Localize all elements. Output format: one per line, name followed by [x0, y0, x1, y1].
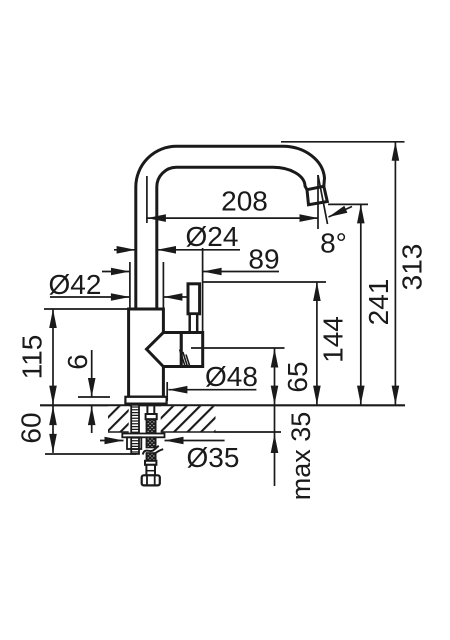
dim lines diameter 24: [114, 249, 136, 251]
144 arrows: [313, 282, 321, 301]
lever cap (cartridge cover): [181, 333, 202, 367]
dim line 241: [360, 204, 362, 404]
dim line 144: [316, 282, 318, 405]
valve boss pentagon: [147, 333, 182, 367]
svg-text:60: 60: [16, 412, 47, 443]
svg-text:208: 208: [221, 186, 268, 217]
lever tail wedge: [180, 350, 190, 367]
hose collar: [145, 461, 156, 465]
svg-text:Ø42: Ø42: [49, 269, 102, 300]
spout outer edge (pipe left side, top bend, down bend to tip): [136, 146, 325, 309]
241 arrows: [357, 204, 365, 223]
counter hatch right block: [161, 406, 216, 432]
counter hatch left block: [108, 406, 129, 432]
60 arrows: [49, 406, 57, 425]
spout inner edge: [157, 167, 307, 309]
svg-text:max 35: max 35: [286, 412, 316, 501]
dim line 60: [52, 406, 54, 453]
ext line body left (for 42/89): [129, 262, 131, 308]
ext line lever top (for 144): [202, 281, 326, 283]
dim line 208: [147, 217, 319, 219]
115 arrows: [49, 309, 57, 328]
threaded stud: [131, 405, 139, 454]
208 arrows: [147, 214, 166, 222]
8deg vertical reference line: [317, 175, 319, 229]
8deg arrow: [327, 206, 347, 221]
dia42 arrows: [111, 293, 130, 301]
leader handle center (for 65): [191, 347, 285, 349]
ext line plate top (for 6): [78, 396, 110, 398]
dim line 115: [52, 309, 54, 405]
dim lines 89: [102, 271, 130, 273]
svg-text:Ø35: Ø35: [187, 442, 240, 473]
svg-text:65: 65: [282, 361, 313, 392]
svg-text:6: 6: [62, 354, 93, 370]
ext line body right (for 42): [162, 262, 164, 308]
svg-text:Ø48: Ø48: [205, 361, 258, 392]
hose break squiggle: [143, 446, 163, 458]
dim line 6 upper: [91, 350, 93, 397]
faucet body cylinder: [129, 309, 164, 397]
lever neck: [190, 314, 198, 333]
svg-text:Ø24: Ø24: [186, 221, 239, 252]
dim line diameter 48: [168, 389, 256, 391]
dimension labels: [16, 186, 428, 501]
65 arrows: [271, 349, 279, 368]
lever handle stick: [188, 284, 200, 314]
hose braided section lower: [146, 453, 155, 461]
dia48 arrow: [168, 386, 187, 394]
8deg leader line: [329, 207, 353, 218]
ext line stud bottom (for 60): [45, 453, 136, 455]
svg-text:144: 144: [318, 316, 349, 363]
hose ferrule: [146, 414, 157, 419]
hose neck: [146, 465, 155, 476]
dia35 arrows: [105, 437, 124, 445]
svg-text:8°: 8°: [320, 228, 347, 259]
ext line hatch bottom (for max35): [215, 431, 282, 433]
ext line handle right (for 89): [202, 248, 204, 332]
hose upper tube: [147, 405, 154, 414]
6 arrows: [88, 378, 96, 397]
hex nut facet lines: [147, 475, 155, 485]
dim line 313: [394, 142, 396, 405]
ext line spout outlet (for 241): [328, 203, 368, 205]
89 arrows: [111, 268, 130, 276]
ext line body top (for 115): [44, 308, 128, 310]
dim line 6 lower: [91, 406, 93, 433]
svg-text:241: 241: [363, 279, 394, 326]
svg-text:313: 313: [397, 244, 428, 291]
mounting washer: [122, 434, 164, 438]
base plate: [125, 397, 166, 404]
max35 arrow: [271, 434, 279, 453]
8deg tilted axis line: [318, 175, 328, 224]
dia24 arrows: [117, 246, 136, 254]
hose hex nut: [142, 475, 160, 485]
counter top line: [40, 404, 405, 406]
aerator tip (tilted outlet): [307, 186, 327, 204]
ext line spout top (for 313): [281, 141, 405, 143]
dim line 65: [274, 349, 276, 405]
ext line pipe center (for 208): [146, 176, 148, 223]
dim lines diameter 42: [50, 296, 130, 298]
svg-text:115: 115: [17, 335, 48, 380]
dim line max35: [274, 406, 276, 486]
hose braided section upper: [146, 419, 155, 447]
arrowheads: [49, 142, 399, 453]
mounting nut: [127, 437, 141, 449]
svg-text:89: 89: [248, 244, 279, 275]
dim lines diameter 35: [100, 440, 124, 442]
ext line plate right (for 48): [166, 382, 168, 401]
313 arrows: [392, 142, 400, 161]
hose neck mid line: [146, 470, 155, 472]
